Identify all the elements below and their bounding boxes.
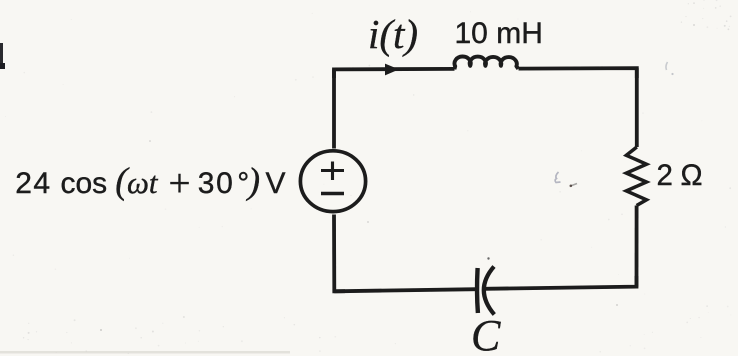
wire bottom-right (capacitor to corner)	[485, 276, 637, 289]
svg-text:V: V	[266, 167, 286, 200]
svg-text:24: 24	[15, 167, 51, 200]
resistor value label 2 ohm	[657, 159, 703, 192]
current arrow on top wire	[385, 64, 399, 76]
voltage source V1 circle	[300, 151, 365, 212]
wire right lower (resistor to corner)	[635, 206, 639, 287]
wire top-right segment	[519, 68, 637, 78]
inductor L1 (10 mH)	[454, 57, 518, 70]
svg-text:C: C	[471, 311, 501, 356]
wire top-left segment	[334, 69, 455, 78]
wire left lower (source to corner)	[334, 215, 345, 292]
svg-text:Ω: Ω	[681, 159, 703, 192]
wire left upper (corner to source)	[332, 69, 336, 148]
voltage source minus sign	[321, 192, 344, 195]
wire bottom-left (corner to capacitor)	[334, 289, 477, 291]
capacitor C1 left plate	[475, 268, 480, 313]
svg-text:10 mH: 10 mH	[455, 17, 543, 50]
svg-text:30: 30	[198, 167, 235, 200]
resistor R1 (2 ohm) zigzag	[626, 147, 646, 206]
svg-text:ωt: ωt	[127, 165, 159, 200]
voltage source plus sign	[321, 162, 344, 181]
svg-text:+: +	[169, 162, 191, 205]
source label 24 cos (wt + 30deg) V	[15, 161, 285, 205]
svg-text:): )	[246, 161, 260, 202]
svg-text:i(t): i(t)	[368, 11, 418, 57]
svg-text:cos: cos	[61, 167, 108, 200]
capacitor C1 right plate (curved)	[484, 267, 494, 315]
wire right upper (corner to resistor)	[635, 68, 639, 147]
svg-text:2: 2	[657, 159, 673, 192]
